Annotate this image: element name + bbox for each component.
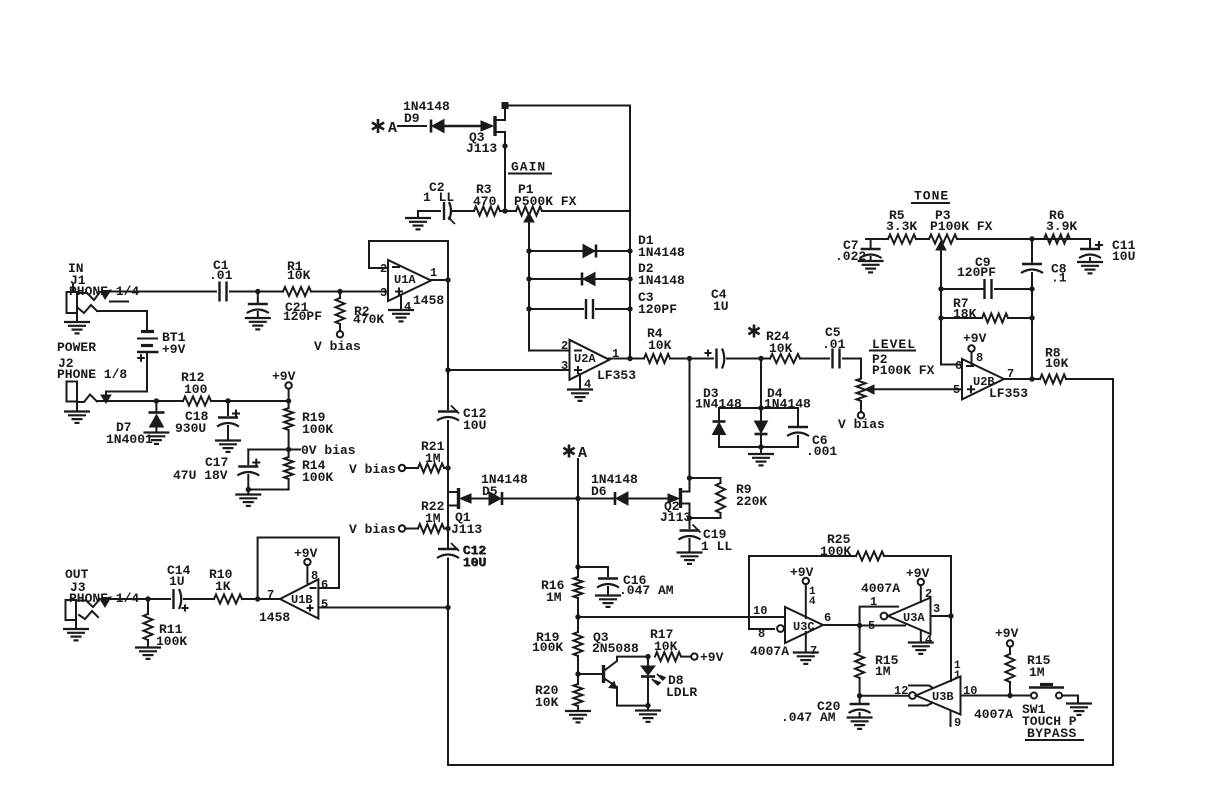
wire (pin 8 feedback): [749, 556, 774, 629]
node *A (junction): [575, 496, 580, 501]
capacitor C11 10U: [1077, 238, 1136, 273]
svg-text:120PF: 120PF: [957, 265, 996, 280]
wire: [230, 291, 283, 293]
svg-text:100K: 100K: [156, 634, 187, 649]
node: [758, 444, 763, 449]
svg-text:10K: 10K: [648, 338, 672, 353]
wire (U2A out to Q2 drain): [689, 359, 691, 479]
svg-text:A: A: [578, 445, 587, 462]
capacitor C4 1U: [705, 287, 729, 369]
node: [154, 398, 159, 403]
node: [445, 526, 450, 531]
resistor R19 100K (Q3 base): [532, 617, 583, 674]
svg-text:120PF: 120PF: [638, 302, 677, 317]
node: [225, 398, 230, 403]
node: [502, 208, 507, 213]
svg-text:1 LL: 1 LL: [423, 190, 454, 205]
svg-text:5: 5: [868, 619, 875, 633]
node: [687, 515, 692, 520]
wire (U3B pin 12): [860, 684, 909, 698]
diode D2 1N4148: [529, 261, 685, 288]
node: [337, 289, 342, 294]
wire (U3A output pin 3): [931, 602, 952, 616]
wire (clipper top rail): [719, 407, 798, 409]
svg-text:3: 3: [933, 602, 940, 616]
wire (U1B pin 5): [318, 607, 448, 609]
capacitor C9 120PF: [941, 255, 1032, 299]
svg-text:U1A: U1A: [394, 273, 416, 287]
node: [526, 248, 531, 253]
capacitor C17 47U 18V: [173, 450, 289, 490]
node: [857, 693, 862, 698]
svg-text:1N4148: 1N4148: [638, 245, 685, 260]
ground (U2A pin 4): [567, 374, 593, 401]
wire: [471, 498, 489, 500]
svg-text:1N4148: 1N4148: [695, 397, 742, 412]
svg-text:1458: 1458: [413, 293, 444, 308]
node: [286, 398, 291, 403]
node: [445, 605, 450, 610]
svg-text:10U: 10U: [463, 418, 486, 433]
svg-text:6: 6: [321, 578, 328, 592]
capacitor C7 .022: [835, 238, 888, 272]
wire: [916, 238, 929, 240]
wire (R25 top): [749, 555, 856, 557]
resistor R24 10K: [766, 329, 800, 363]
wire (output): [106, 598, 170, 600]
capacitor C20 .047 AM: [781, 696, 873, 729]
svg-text:1U: 1U: [169, 574, 185, 589]
wire (input): [106, 291, 216, 293]
node: [687, 356, 692, 361]
node: [246, 487, 251, 492]
ground (C17): [235, 490, 261, 506]
inverter U3A 4007A: [861, 581, 931, 634]
svg-text:10: 10: [963, 684, 977, 698]
svg-text:1M: 1M: [1029, 665, 1045, 680]
resistor R22 1M: [349, 499, 448, 537]
wire: [760, 359, 762, 409]
wire (U3A pin 1): [860, 595, 898, 626]
wire: [444, 125, 480, 128]
label GAIN: [509, 160, 551, 175]
capacitor C19 1 LL: [677, 518, 733, 564]
node: [1029, 236, 1034, 241]
node: [1029, 315, 1034, 320]
wire: [398, 125, 426, 127]
capacitor C1 .01: [209, 258, 233, 302]
op-amp U2B: [953, 359, 1028, 401]
resistor R3: [473, 182, 500, 216]
node (top rail corner): [502, 102, 509, 109]
transistor Q3 J113: [466, 107, 505, 156]
wire: [800, 358, 829, 360]
node: [255, 289, 260, 294]
LED D8 LDLR (opto): [641, 657, 697, 706]
node: [687, 475, 692, 480]
svg-text:10: 10: [753, 604, 767, 618]
svg-text:3.3K: 3.3K: [886, 219, 917, 234]
capacitor C8 .1: [1021, 239, 1067, 289]
svg-text:10K: 10K: [654, 639, 678, 654]
svg-text:P100K FX: P100K FX: [872, 363, 935, 378]
svg-text:10U: 10U: [463, 556, 486, 571]
svg-text:.01: .01: [822, 337, 846, 352]
wire (U2A output): [609, 358, 644, 360]
svg-text:P100K FX: P100K FX: [930, 219, 993, 234]
diode D6 1N4148: [591, 472, 638, 505]
svg-text:4007A: 4007A: [974, 707, 1013, 722]
svg-text:6: 6: [955, 359, 962, 373]
wire: [542, 210, 630, 212]
ground (J3): [63, 620, 89, 640]
svg-text:4007A: 4007A: [750, 644, 789, 659]
node: [445, 277, 450, 282]
resistor R14 100K (bias divider): [284, 450, 333, 490]
svg-text:U2A: U2A: [574, 352, 596, 366]
wire (U3C pin 14 +9V): [790, 565, 816, 618]
svg-text:4: 4: [809, 596, 816, 608]
wire (right rail to U2A output): [629, 211, 631, 359]
diode D3 1N4148: [695, 386, 742, 447]
op-amp U1B: [259, 578, 328, 625]
svg-text:U3C: U3C: [793, 620, 815, 634]
resistor R5 3.3K: [886, 208, 917, 244]
svg-text:+9V: +9V: [995, 626, 1019, 641]
node: [645, 703, 650, 708]
svg-text:1N4148: 1N4148: [764, 397, 811, 412]
svg-text:8: 8: [976, 351, 983, 365]
wire (U1B feedback): [258, 538, 339, 600]
diode D1 1N4148: [529, 233, 685, 260]
wire: [628, 498, 668, 500]
resistor R16 1M: [541, 567, 583, 617]
wire: [453, 210, 474, 212]
resistor R15 1M (pull-up): [995, 626, 1051, 696]
svg-text:.022: .022: [835, 249, 866, 264]
svg-text:8: 8: [758, 627, 765, 641]
svg-text:2N5088: 2N5088: [592, 641, 639, 656]
resistor R19 100K (bias divider): [284, 401, 333, 450]
resistor R25 100K: [820, 532, 884, 561]
svg-text:1 LL: 1 LL: [701, 539, 732, 554]
node 0V bias: [286, 443, 356, 458]
node: [445, 465, 450, 470]
wire (U2B pin 8 +9V): [963, 331, 987, 365]
svg-text:10K: 10K: [769, 341, 793, 356]
wire: [577, 459, 579, 567]
jack J1 PHONE 1/4 (IN): [67, 261, 140, 313]
wire (U2B pin 6): [941, 364, 962, 366]
potentiometer P3 TONE: [929, 208, 993, 289]
svg-text:10K: 10K: [287, 268, 311, 283]
ground (J1): [64, 313, 90, 333]
svg-text:+9V: +9V: [906, 566, 930, 581]
svg-text:+9V: +9V: [790, 565, 814, 580]
capacitor C18 930U: [175, 401, 241, 452]
node *A (top): [372, 119, 397, 137]
capacitor C6 .001: [787, 408, 837, 459]
jack J3 PHONE 1/4 (OUT): [65, 567, 139, 620]
svg-text:470: 470: [473, 194, 497, 209]
svg-text:100K: 100K: [820, 544, 851, 559]
svg-text:P500K FX: P500K FX: [514, 194, 577, 209]
svg-text:LF353: LF353: [597, 368, 636, 383]
wire (rail): [447, 559, 449, 766]
resistor R7 18K: [941, 296, 1032, 323]
svg-text:1U: 1U: [713, 299, 729, 314]
transistor Q3 2N5088: [578, 630, 648, 706]
transistor Q1 J113: [448, 488, 482, 537]
svg-text:LF353: LF353: [989, 386, 1028, 401]
ground (Q3/D8): [635, 706, 661, 722]
wire (to bypass box): [1066, 379, 1113, 765]
ground (U3A pin 4): [908, 630, 934, 654]
svg-text:10K: 10K: [535, 695, 559, 710]
resistor R12 100: [181, 370, 211, 406]
svg-text:.1: .1: [1051, 271, 1067, 286]
wire (U1A output): [431, 279, 448, 281]
svg-text:+9V: +9V: [272, 369, 296, 384]
wire (top rail): [505, 106, 630, 212]
wire: [502, 498, 614, 500]
resistor R15 1M: [855, 626, 899, 696]
capacitor C3 120PF: [529, 290, 677, 319]
node (Q3 source): [502, 143, 507, 148]
op-amp U2A: [561, 339, 636, 383]
svg-text:J113: J113: [451, 522, 482, 537]
switch SW1 TOUCH P: [1010, 685, 1083, 742]
ground (clipper): [748, 447, 774, 465]
resistor R20 10K: [535, 674, 591, 722]
wire (battery to J2): [101, 352, 147, 403]
wire (U1A feedback): [369, 241, 448, 268]
node *A (label): [563, 445, 587, 463]
capacitor C14 1U: [167, 563, 191, 612]
node: [526, 276, 531, 281]
svg-text:V bias: V bias: [349, 462, 396, 477]
wire: [843, 359, 861, 365]
wire: [957, 238, 1090, 240]
svg-text:.001: .001: [806, 444, 837, 459]
svg-text:.047 AM: .047 AM: [781, 710, 836, 725]
node: [145, 596, 150, 601]
resistor R11 100K: [135, 599, 187, 659]
svg-text:V bias: V bias: [314, 339, 361, 354]
svg-text:100K: 100K: [532, 640, 563, 655]
svg-text:U3A: U3A: [903, 611, 925, 625]
svg-text:120PF: 120PF: [283, 309, 322, 324]
ground (SW1): [1066, 704, 1092, 715]
node: [526, 306, 531, 311]
svg-text:LDLR: LDLR: [666, 685, 697, 700]
wire (U1B pin 8 +9V): [294, 546, 318, 584]
wire: [884, 556, 951, 616]
svg-text:U3B: U3B: [932, 690, 954, 704]
svg-text:4: 4: [404, 300, 411, 314]
svg-text:J113: J113: [466, 141, 497, 156]
wire (U2B output): [1004, 378, 1040, 380]
capacitor C21 120PF: [245, 292, 322, 330]
node: [445, 367, 450, 372]
svg-text:D9: D9: [404, 111, 420, 126]
svg-text:+9V: +9V: [963, 331, 987, 346]
node: [645, 654, 650, 659]
svg-text:.047 AM: .047 AM: [619, 583, 674, 598]
svg-text:2: 2: [925, 587, 932, 601]
wire (power rail): [97, 400, 183, 402]
svg-text:+9V: +9V: [700, 650, 724, 665]
wire (to U3C pin 10): [578, 604, 785, 618]
inverter U3B 4007A: [909, 677, 1013, 723]
svg-text:1N4001: 1N4001: [106, 432, 153, 447]
svg-text:D5: D5: [482, 484, 498, 499]
svg-text:9: 9: [954, 716, 961, 730]
svg-text:.01: .01: [209, 268, 233, 283]
ground (U3C pin 7): [793, 632, 819, 664]
svg-text:1458: 1458: [259, 610, 290, 625]
svg-text:7: 7: [267, 588, 274, 602]
svg-text:5: 5: [953, 383, 960, 397]
battery BT1 +9V: [97, 311, 186, 362]
node: [255, 596, 260, 601]
diode D5 1N4148: [481, 472, 528, 505]
svg-text:1N4148: 1N4148: [638, 273, 685, 288]
ground (C2): [405, 211, 440, 229]
svg-text:GAIN: GAIN: [511, 160, 546, 175]
potentiometer P2 LEVEL: [838, 337, 935, 432]
wire: [311, 291, 388, 293]
wire: [248, 489, 288, 491]
inverter U3C 4007A: [750, 607, 831, 659]
node: [938, 286, 943, 291]
potentiometer P1 GAIN: [514, 182, 577, 251]
svg-text:1M: 1M: [546, 590, 562, 605]
diode D4 1N4148: [755, 386, 812, 447]
node: [575, 614, 580, 619]
svg-text:TONE: TONE: [914, 189, 949, 204]
wire: [500, 210, 516, 212]
resistor R8 10K: [1040, 346, 1069, 384]
svg-text:V bias: V bias: [838, 417, 885, 432]
svg-text:930U: 930U: [175, 421, 206, 436]
resistor R9 220K: [690, 478, 768, 518]
wire (U3C output): [823, 624, 860, 626]
capacitor C12 10U: [437, 406, 487, 434]
svg-text:470K: 470K: [353, 312, 384, 327]
wire: [184, 598, 214, 600]
svg-text:3: 3: [380, 286, 387, 300]
svg-text:100K: 100K: [302, 422, 333, 437]
resistor R2 470K: [314, 292, 384, 355]
svg-text:1: 1: [870, 595, 877, 609]
svg-text:0V bias: 0V bias: [301, 443, 356, 458]
op-amp U1A: [380, 260, 444, 308]
wire (P1 wiper chain to U2A pin 2): [529, 251, 569, 351]
node * (R24 junction): [748, 325, 763, 362]
node: [627, 306, 632, 311]
resistor R10 1K: [209, 567, 242, 604]
node: [1007, 693, 1012, 698]
node: [948, 613, 953, 618]
svg-text:D6: D6: [591, 484, 607, 499]
wire: [242, 598, 281, 600]
svg-text:8: 8: [311, 569, 318, 583]
capacitor C13 10U: [437, 543, 487, 571]
node: [1029, 286, 1034, 291]
svg-text:4: 4: [925, 633, 932, 647]
svg-text:47U 18V: 47U 18V: [173, 468, 228, 483]
wire (U2A pin 3): [448, 369, 569, 371]
svg-text:+9V: +9V: [162, 342, 186, 357]
wire: [211, 400, 289, 402]
label TONE: [912, 189, 949, 204]
svg-text:1: 1: [430, 266, 437, 280]
svg-text:3.9K: 3.9K: [1046, 219, 1077, 234]
svg-text:100K: 100K: [302, 470, 333, 485]
resistor R17 10K: [650, 627, 724, 665]
resistor R6 3.9K: [1044, 208, 1077, 244]
wire (rail): [447, 241, 449, 409]
svg-text:1K: 1K: [215, 579, 231, 594]
svg-text:BYPASS: BYPASS: [1027, 726, 1077, 741]
wire (P2 wiper to U2B pin 5): [874, 388, 962, 390]
node: [627, 356, 632, 361]
ground (J2): [64, 402, 90, 423]
svg-text:10U: 10U: [1112, 249, 1135, 264]
svg-text:U1B: U1B: [291, 593, 313, 607]
resistor R1 10K: [283, 259, 311, 296]
wire (U3B output pin 10): [961, 684, 1011, 698]
capacitor C5 .01: [822, 325, 846, 369]
wire (clipper bottom rail): [719, 446, 798, 448]
wire: [504, 146, 506, 211]
wire: [1031, 289, 1033, 379]
diode D7 1N4001: [106, 401, 169, 447]
svg-text:V bias: V bias: [349, 522, 396, 537]
node: [758, 405, 763, 410]
node: [575, 671, 580, 676]
power +9V: [272, 369, 296, 401]
wire (bypass box bottom): [448, 764, 1113, 766]
svg-text:18K: 18K: [953, 307, 977, 322]
node: [627, 276, 632, 281]
svg-text:1M: 1M: [425, 511, 441, 526]
jack J2 PHONE 1/8 (POWER): [57, 340, 127, 402]
node: [1029, 376, 1034, 381]
wire (U3B pin 9): [951, 711, 962, 730]
svg-text:6: 6: [824, 611, 831, 625]
node: [857, 623, 862, 628]
capacitor C16 .047 AM: [578, 567, 674, 607]
wire: [670, 358, 713, 360]
wire (U3A pin 2 +9V): [906, 566, 932, 602]
svg-text:12: 12: [894, 684, 908, 698]
node: [627, 248, 632, 253]
wire (rail): [447, 421, 449, 547]
svg-text:J113: J113: [660, 510, 691, 525]
transistor Q2 J113: [660, 478, 691, 525]
svg-text:PHONE 1/8: PHONE 1/8: [57, 367, 127, 382]
resistor R21 1M: [349, 439, 448, 477]
svg-text:2: 2: [561, 339, 568, 353]
svg-text:A: A: [388, 120, 397, 137]
svg-text:100: 100: [184, 382, 208, 397]
wire: [727, 358, 770, 360]
diode D9 1N4148: [403, 99, 450, 133]
svg-text:1M: 1M: [425, 451, 441, 466]
node: [575, 564, 580, 569]
